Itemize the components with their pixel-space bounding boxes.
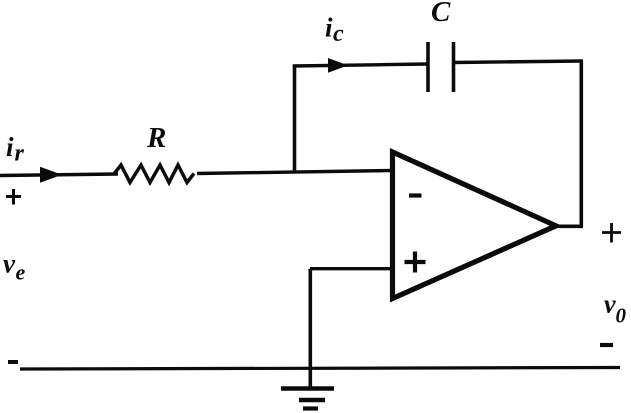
svg-text:ir: ir: [6, 132, 25, 167]
ground: [281, 389, 334, 409]
op-amp non-inverting input mark +: [405, 260, 426, 264]
node -: output negative terminal: [600, 343, 613, 347]
wire: top feedback wire left segment with arrow: [293, 58, 428, 73]
op-amp inverting input mark -: [409, 193, 422, 197]
wire: non-inverting input horizontal: [310, 267, 392, 270]
node +: input positive terminal: [6, 189, 21, 205]
resistor R: [114, 165, 194, 183]
svg-text:C: C: [431, 0, 451, 28]
wire: input wire left segment with arrow: [0, 167, 118, 183]
wire: right vertical drop to output: [579, 61, 583, 228]
svg-text:ve: ve: [3, 249, 25, 285]
svg-text:R: R: [146, 122, 166, 154]
wire: op-amp output to node: [554, 225, 583, 229]
op-amp U1: [393, 152, 557, 299]
svg-text:ic: ic: [325, 13, 344, 48]
wire: vertical riser to feedback branch: [293, 65, 297, 174]
wire: top feedback wire right segment: [454, 61, 584, 63]
capacitor C: [428, 42, 454, 92]
node -: input negative terminal: [8, 360, 18, 364]
node +: output positive terminal: [602, 223, 621, 243]
wire: bottom rail: [20, 368, 620, 370]
wire: ground drop: [308, 269, 312, 388]
svg-text:v0: v0: [604, 290, 627, 328]
wire: resistor to op-amp inverting input: [197, 171, 392, 174]
